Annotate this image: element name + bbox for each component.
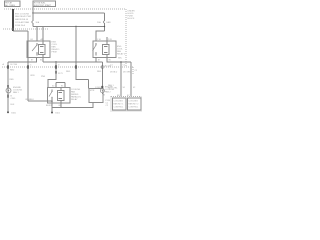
- svg-text:FAN: FAN: [107, 21, 111, 24]
- wire: relay K2 pin 87 stub: [95, 58, 97, 63]
- node D: battery drop junction: [27, 61, 28, 62]
- wire: line B (y26.5 fused feed run): [33, 26, 105, 28]
- svg-text:FAN RLY 2: FAN RLY 2: [129, 103, 140, 106]
- svg-text:RED: RED: [97, 71, 102, 73]
- svg-text:ENG COOLING: ENG COOLING: [15, 13, 30, 15]
- svg-text:PNK: PNK: [41, 76, 46, 78]
- node G: PCM control tap: [120, 61, 121, 62]
- fan motor M1 (engine cooling fan 1): [6, 79, 23, 106]
- svg-text:RELAY: RELAY: [71, 98, 78, 101]
- svg-text:B C100: B C100: [11, 64, 19, 66]
- wire: ignition feed to fuse F1: [32, 7, 34, 21]
- wire: relay K2 pin 85 to PCM run: [107, 58, 131, 63]
- wire: fan2 resistor feed drop: [76, 27, 89, 80]
- node H: ground junction: [51, 100, 52, 101]
- wire: battery drop to ground bus: [27, 31, 29, 101]
- svg-text:MAXIFUSE 46: MAXIFUSE 46: [15, 18, 29, 21]
- wire: ground drop G101: [51, 101, 53, 113]
- node E: s/p relay branch junction: [55, 61, 56, 62]
- fuse F1 30A: [32, 20, 40, 27]
- svg-text:COOLING: COOLING: [114, 101, 124, 103]
- svg-text:FAN 1: FAN 1: [13, 91, 19, 94]
- wire: s/p relay coil feed drop: [48, 62, 56, 88]
- svg-text:FUSE 30 A: FUSE 30 A: [15, 24, 26, 27]
- connector line C100 (dashed): [2, 67, 133, 74]
- node F: fan2 resistor branch junction: [75, 61, 76, 62]
- svg-text:FAN RLY 1: FAN RLY 1: [114, 103, 125, 106]
- svg-text:DK BLU: DK BLU: [110, 72, 118, 74]
- svg-text:ALL TIMES: ALL TIMES: [5, 4, 15, 7]
- svg-text:CONTROL: CONTROL: [114, 107, 125, 109]
- wire: battery feed horizontal run y31: [13, 30, 28, 32]
- svg-text:SEC: SEC: [118, 58, 123, 60]
- wire: y62 right run (fan feed bus): [43, 61, 102, 63]
- svg-text:RLY CTRL: RLY CTRL: [108, 88, 118, 90]
- connector C102 blob: [101, 66, 103, 69]
- wire: relay K2 pin 85 stub: [106, 37, 108, 41]
- svg-text:RED: RED: [10, 70, 15, 72]
- wire: fan2 motor feed drop: [101, 62, 103, 89]
- wire: battery feed drop: [12, 9, 14, 31]
- wire: ground bus y101: [28, 100, 52, 102]
- svg-text:COOLANT FAN: COOLANT FAN: [15, 21, 30, 24]
- fuse F2 20A: [97, 20, 111, 31]
- maxifuse label text: [15, 13, 32, 27]
- wire: relay K3 pin 87 stub: [51, 103, 53, 107]
- svg-text:PRIM: PRIM: [52, 52, 57, 54]
- fuse block dashed bottom edge (left section): [3, 28, 48, 30]
- wire: drop to relay K1 pin 30: [36, 27, 38, 42]
- wire: PCM control 2 drop: [130, 62, 132, 97]
- svg-text:MTR: MTR: [90, 90, 95, 92]
- svg-text:COOLING: COOLING: [129, 101, 139, 103]
- ground G101: [51, 112, 53, 114]
- svg-text:DK GRN: DK GRN: [123, 72, 131, 74]
- fuse block name label: [128, 11, 136, 21]
- connector tick on battery feed: [12, 28, 14, 30]
- fan motor M2 assembly (engine cooling fan 2): [89, 86, 115, 103]
- wire: fan2 resistor box feed: [88, 80, 90, 89]
- svg-text:RED: RED: [66, 71, 71, 73]
- wire: drop to relay K1 pin 85: [42, 27, 44, 42]
- power label box B+ (hot at all times): [5, 1, 21, 7]
- svg-text:ORN: ORN: [30, 75, 35, 77]
- connector terminal on battery wire: [27, 65, 29, 68]
- svg-text:BLOCK: BLOCK: [128, 18, 135, 20]
- svg-text:BULB TEST, START: BULB TEST, START: [34, 4, 52, 7]
- wire: y107 run to fan2 box: [52, 103, 93, 108]
- fuse block dashed right edge: [125, 9, 127, 67]
- wire: relay K3 pin 86 stub: [60, 103, 62, 107]
- svg-text:FAN RELAY PWR: FAN RELAY PWR: [15, 15, 32, 18]
- svg-text:BLK: BLK: [11, 104, 15, 106]
- wire: relay K1 pin 87 out to fan1 (y62 left run): [8, 58, 37, 63]
- power label box IGN (hot in run): [33, 1, 56, 7]
- wire: fan1 feed drop: [7, 62, 9, 112]
- PCM U1 (powertrain control module): [106, 84, 142, 111]
- connector terminal on s/p relay wire: [55, 65, 57, 68]
- ground G100: [7, 111, 17, 114]
- relay K3 (series/parallel relay): [47, 83, 82, 104]
- connector terminal on fan1 wire: [7, 65, 9, 68]
- splice S171: [55, 71, 57, 74]
- node A: line A tap junction: [32, 12, 33, 13]
- node C: fuse F2 output junction: [104, 26, 105, 27]
- connector terminal on resistor wire: [75, 65, 77, 68]
- battery feed arrow: [12, 9, 15, 12]
- svg-text:CONTROL: CONTROL: [129, 107, 140, 109]
- wire: PCM control 1 drop: [120, 62, 122, 97]
- wire: relay K1 pin 86 down: [42, 58, 44, 63]
- relay K1 (cooling fan relay 1): [27, 38, 60, 62]
- wire: line A (y13 run to fuse F2): [33, 12, 105, 14]
- svg-text:RELAY 2: RELAY 2: [117, 53, 126, 56]
- svg-text:FAN 2: FAN 2: [105, 91, 111, 94]
- node B: fan2 branch junction: [75, 26, 76, 27]
- wire: fuse F2 out to relay K2 pin 30: [96, 31, 105, 41]
- fuse block dashed top edge: [4, 8, 126, 10]
- svg-text:RED: RED: [10, 79, 15, 81]
- svg-text:ORN/BLK: ORN/BLK: [25, 99, 34, 101]
- relay K2 (cooling fan relay 2): [93, 39, 126, 62]
- wire: fuse F2 feed drop: [104, 13, 106, 20]
